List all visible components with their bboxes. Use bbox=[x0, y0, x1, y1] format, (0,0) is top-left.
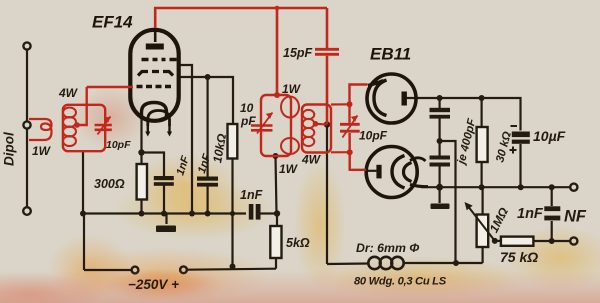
svg-text:5kΩ: 5kΩ bbox=[286, 236, 310, 250]
svg-text:10: 10 bbox=[240, 101, 254, 115]
svg-text:pF: pF bbox=[240, 114, 256, 128]
svg-text:EB11: EB11 bbox=[370, 45, 411, 64]
svg-text:80 Wdg. 0,3 Cu LS: 80 Wdg. 0,3 Cu LS bbox=[354, 276, 447, 288]
svg-text:Dr: 6mm Φ: Dr: 6mm Φ bbox=[356, 241, 419, 255]
svg-text:−250V +: −250V + bbox=[128, 277, 179, 292]
svg-text:Dipol: Dipol bbox=[2, 132, 17, 166]
svg-text:4W: 4W bbox=[301, 153, 322, 167]
svg-text:1W: 1W bbox=[279, 162, 299, 176]
svg-text:1W: 1W bbox=[282, 82, 302, 96]
svg-text:1nF: 1nF bbox=[240, 188, 263, 202]
svg-text:4W: 4W bbox=[58, 86, 79, 100]
svg-text:15pF: 15pF bbox=[283, 46, 313, 60]
svg-text:1W: 1W bbox=[32, 144, 52, 158]
svg-text:300Ω: 300Ω bbox=[94, 177, 125, 191]
svg-text:1nF: 1nF bbox=[517, 206, 544, 222]
svg-text:NF: NF bbox=[564, 208, 587, 226]
svg-text:75 kΩ: 75 kΩ bbox=[500, 249, 538, 265]
svg-text:10pF: 10pF bbox=[359, 129, 388, 143]
svg-text:10pF: 10pF bbox=[106, 139, 131, 151]
svg-text:EF14: EF14 bbox=[92, 13, 133, 32]
svg-text:10µF: 10µF bbox=[533, 128, 566, 144]
